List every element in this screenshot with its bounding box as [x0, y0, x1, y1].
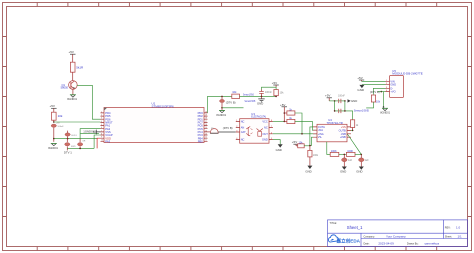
- U1 right pin stubs: [204, 113, 208, 141]
- U1 pin numbers: [101, 111, 207, 141]
- wire OUTA feedback down: [310, 127, 313, 145]
- svg-text:Sensor1/SN5: Sensor1/SN5: [354, 109, 370, 113]
- wire U1 PD3 up to sensor row: [208, 96, 232, 113]
- capacitor C? filter2: [359, 154, 370, 166]
- resistor R? pullup B: [284, 117, 295, 124]
- svg-text:PA3: PA3: [105, 139, 110, 143]
- wire +5V to U5 pin1: [362, 80, 386, 82]
- node key junction: [79, 148, 81, 150]
- svg-text:Your Company: Your Company: [386, 235, 406, 239]
- U5 pin stubs: [386, 81, 390, 91]
- capacitor C? decouple2: [339, 109, 341, 113]
- transistor Q1: [61, 81, 78, 90]
- wire opamp bottom to 100k1: [327, 142, 330, 155]
- ground flag GND opto: [276, 144, 283, 152]
- svg-text:+VO: +VO: [390, 90, 395, 94]
- svg-text:10k: 10k: [232, 90, 237, 94]
- svg-text:LED1: LED1: [71, 135, 77, 137]
- U4 left pin stubs: [313, 127, 317, 137]
- svg-text:14: 14: [205, 130, 207, 132]
- svg-text:1/1: 1/1: [458, 235, 463, 239]
- svg-text:100K: 100K: [347, 150, 353, 153]
- ground flag GND filter1: [340, 167, 347, 174]
- wire 100k1 to 100k2: [339, 153, 347, 155]
- svg-text:1uF: 1uF: [365, 159, 370, 162]
- wire Sensor2 row: [222, 107, 244, 109]
- U1 left pin names: [105, 111, 113, 143]
- node junction divider: [261, 96, 263, 98]
- svg-text:S8050: S8050: [61, 86, 69, 90]
- wire decouple bottom rail: [335, 101, 353, 120]
- node junction OUTB: [352, 130, 354, 132]
- svg-text:VS-: VS-: [318, 135, 322, 139]
- svg-text:Sheet_1: Sheet_1: [347, 225, 363, 230]
- connector U5 module: [390, 69, 424, 98]
- svg-text:5: 5: [101, 124, 102, 126]
- power flag +5V sensor: [272, 81, 279, 87]
- svg-text:GND: GND: [357, 88, 365, 92]
- wire sensor row right: [240, 95, 277, 97]
- ground ICND01 at U1 VSS: [83, 130, 100, 135]
- svg-text:100k: 100k: [313, 154, 319, 157]
- opamp U4 TP1572: [317, 118, 347, 142]
- diode LED DTV: [220, 96, 236, 107]
- node junction bias: [309, 145, 311, 147]
- svg-text:Company:: Company:: [364, 236, 376, 239]
- svg-text:GND: GND: [356, 170, 362, 174]
- svg-text:6: 6: [101, 127, 102, 129]
- svg-text:GND: GND: [257, 101, 263, 105]
- wire resistor to node: [53, 120, 55, 122]
- svg-text:+5V: +5V: [50, 104, 55, 108]
- capacitor C? +5V filter: [259, 90, 272, 97]
- svg-text:STM8S103F3P6: STM8S103F3P6: [152, 104, 175, 108]
- svg-text:NC: NC: [264, 126, 268, 130]
- svg-text:2023-04-09: 2023-04-09: [378, 241, 394, 245]
- node junction filter1: [344, 154, 346, 156]
- wire U5 pin4: [378, 91, 386, 93]
- wire VCAP branch: [94, 135, 100, 148]
- U3 left pin stubs: [236, 121, 240, 139]
- svg-text:0R: 0R: [83, 141, 86, 143]
- wire PA2 branch: [80, 129, 100, 139]
- node junctions decouple: [334, 100, 336, 102]
- node junction U5 pin4: [381, 91, 383, 93]
- svg-text:GND: GND: [351, 99, 357, 103]
- U3 internal LED: [246, 127, 252, 137]
- node junction DTV: [221, 107, 223, 109]
- wire decouple top rail: [329, 100, 345, 102]
- svg-text:18: 18: [205, 118, 207, 120]
- wire resistor to Q1: [72, 72, 74, 80]
- svg-text:17: 17: [205, 121, 207, 123]
- svg-text:+VS: +VS: [341, 125, 346, 129]
- ground flag GND bias: [305, 166, 312, 174]
- svg-text:CAT: CAT: [241, 130, 246, 134]
- svg-text:+INB: +INB: [340, 135, 346, 139]
- svg-text:VCC: VCC: [262, 119, 268, 123]
- svg-text:+5V: +5V: [56, 123, 60, 125]
- svg-text:100nF: 100nF: [57, 126, 64, 128]
- svg-text:VIN: VIN: [390, 79, 394, 83]
- svg-text:1GND01: 1GND01: [83, 130, 94, 134]
- ground flag GND U5: [357, 85, 365, 92]
- svg-text:5k1R: 5k1R: [76, 66, 84, 70]
- svg-text:+5V: +5V: [292, 140, 297, 144]
- resistor R? sensor line: [371, 95, 380, 104]
- U3 internal transistor: [257, 129, 263, 137]
- svg-text:Drawn By:: Drawn By:: [407, 242, 419, 245]
- title block frame: [328, 220, 468, 247]
- svg-text:Sensor2/SN5: Sensor2/SN5: [245, 99, 256, 103]
- wire Q1 base to U1 PD6: [77, 85, 100, 119]
- U1 right pin names: [198, 111, 204, 143]
- wire node to U1 NRST: [54, 121, 101, 123]
- capacitor C? decouple1: [338, 94, 345, 103]
- node junction filter2: [361, 154, 363, 156]
- node junction D1: [67, 138, 69, 140]
- svg-text:OUTB: OUTB: [339, 128, 346, 132]
- resistor R? key: [78, 139, 86, 149]
- svg-text:Sheet:: Sheet:: [445, 236, 453, 239]
- svg-text:OUT: OUT: [262, 132, 268, 136]
- wire diagonal OUTB to filter2: [347, 134, 361, 154]
- wire cap to gnd: [261, 96, 263, 99]
- wire U5 pin3 to resistor: [373, 88, 385, 94]
- svg-text:8GND01: 8GND01: [216, 114, 226, 117]
- svg-text:13: 13: [205, 133, 207, 135]
- svg-text:TP1572A-TR: TP1572A-TR: [327, 121, 343, 125]
- svg-text:1: 1: [101, 111, 102, 113]
- svg-text:+5V: +5V: [272, 81, 277, 85]
- U3 right pin stubs: [269, 121, 273, 139]
- ground GND bars: [257, 99, 265, 106]
- svg-text:-INB: -INB: [341, 132, 346, 136]
- svg-text:8GND01: 8GND01: [48, 147, 58, 150]
- wire pullupA to +INA node: [295, 113, 302, 134]
- svg-text:19: 19: [205, 115, 207, 117]
- svg-text:Sensor1/SN5: Sensor1/SN5: [243, 92, 254, 96]
- resistor R? 100k-1: [330, 150, 339, 157]
- svg-text:8: 8: [101, 133, 102, 135]
- svg-text:EL357N(C)(TA): EL357N(C)(TA): [251, 115, 266, 119]
- power flag +5V decouple: [325, 94, 332, 101]
- svg-text:11: 11: [205, 140, 207, 142]
- svg-text:NC: NC: [241, 138, 245, 142]
- svg-text:SW1: SW1: [71, 146, 77, 148]
- svg-text:9: 9: [101, 137, 102, 139]
- wire pullupB to -INA: [295, 121, 317, 130]
- resistor R? pullup A: [284, 109, 295, 116]
- wire key bottom row: [67, 147, 94, 149]
- node junction +INA: [301, 133, 303, 135]
- node junction left rail: [53, 138, 55, 140]
- U5 pin names: [390, 79, 396, 93]
- svg-text:10: 10: [101, 140, 103, 142]
- svg-text:REV:: REV:: [445, 227, 451, 230]
- wire opto OUT to +INA: [273, 133, 317, 135]
- svg-text:100nF: 100nF: [265, 91, 272, 94]
- diode D? key row: [65, 131, 77, 139]
- svg-text:(DTV B): (DTV B): [226, 100, 236, 104]
- wire bottom row: [54, 138, 97, 140]
- wire OUTB to node: [351, 129, 353, 131]
- resistor R? 100k to gnd: [308, 146, 319, 166]
- svg-text:GND: GND: [340, 170, 346, 174]
- wire pin4 down to ground: [383, 92, 385, 107]
- resistor R? horizontal sensor: [232, 90, 240, 98]
- power flag +5V (Q1 collector): [69, 50, 76, 62]
- power flag +5V (NRST pullup): [50, 104, 57, 112]
- capacitor C? (NRST): [51, 124, 64, 128]
- diode bell D? at U1 PC4: [208, 128, 219, 133]
- node NRST junction: [53, 121, 55, 123]
- svg-text:3: 3: [101, 118, 102, 120]
- svg-text:yanmeikua: yanmeikua: [425, 241, 440, 245]
- node rail junctions: [284, 112, 286, 114]
- svg-text:+5V: +5V: [325, 94, 330, 98]
- svg-text:嘉立创EDA: 嘉立创EDA: [336, 237, 361, 244]
- svg-text:8GND01: 8GND01: [380, 112, 390, 115]
- resistor R? 5k1 (base pullup): [70, 62, 84, 72]
- ground POW under DTV: [216, 108, 226, 117]
- svg-text:+5V: +5V: [357, 76, 362, 80]
- ground flag GND filter2: [356, 167, 364, 174]
- svg-text:GND: GND: [305, 170, 311, 174]
- node junction sensor: [221, 96, 223, 98]
- svg-text:TITLE:: TITLE:: [330, 222, 338, 225]
- wire VDD red: [97, 138, 100, 148]
- ground POW under Q1: [67, 95, 77, 101]
- svg-text:12: 12: [205, 137, 207, 139]
- power flag +5V U5: [357, 76, 364, 81]
- U5 pin numbers: [386, 80, 388, 92]
- wire capacitor down: [53, 128, 55, 139]
- wire bell to opto pin3: [218, 131, 236, 133]
- svg-text:GND: GND: [276, 148, 282, 152]
- IC U1 STM8S103F3P6: [104, 101, 204, 142]
- svg-text:10k: 10k: [58, 114, 63, 118]
- svg-text:2: 2: [101, 115, 102, 117]
- U3 pin numbers: [236, 120, 273, 140]
- svg-text:-INA: -INA: [318, 128, 323, 132]
- svg-text:Date:: Date:: [364, 242, 370, 245]
- ground flag GND decouple: [345, 99, 357, 103]
- wire opto VCC to +5V rail: [273, 120, 284, 122]
- wire VSS aux: [81, 132, 99, 134]
- svg-text:8GND01: 8GND01: [67, 98, 77, 101]
- power flag +5V rail: [280, 103, 287, 122]
- svg-text:20: 20: [205, 111, 207, 113]
- svg-text:16: 16: [205, 124, 207, 126]
- resistor R? opamp bias: [296, 141, 310, 147]
- U3 pin names: [241, 119, 269, 141]
- svg-text:MODULE-DB-2W07TE: MODULE-DB-2W07TE: [392, 72, 423, 76]
- svg-text:GND: GND: [390, 83, 396, 87]
- node junctions decouple2: [334, 110, 336, 112]
- resistor R? 10k (NRST): [52, 112, 63, 120]
- svg-text:15: 15: [205, 127, 207, 129]
- capacitor C? filter1: [342, 154, 353, 166]
- wire U5 pin2 to GND: [362, 84, 386, 86]
- wire opto GND down: [273, 140, 280, 145]
- resistor R? OUTB pull: [351, 120, 360, 131]
- U4 pin names: [318, 125, 346, 139]
- net label DTV 1: [64, 148, 72, 154]
- wire Q1 emitter to ground: [72, 89, 74, 94]
- svg-text:100K: 100K: [331, 150, 337, 153]
- wire 100k2 to out node: [355, 153, 361, 155]
- svg-text:+5V: +5V: [69, 50, 74, 54]
- svg-text:GND: GND: [262, 138, 268, 142]
- optocoupler U3 EL357N: [240, 112, 269, 143]
- resistor R? 100k-2: [346, 150, 355, 157]
- svg-text:PB5: PB5: [198, 139, 204, 143]
- ground POW left: [48, 139, 58, 150]
- switch DTV1 component: [65, 139, 77, 149]
- svg-text:+5V: +5V: [280, 103, 285, 107]
- svg-text:100nF: 100nF: [338, 94, 345, 97]
- power flag +5V opamp: [292, 140, 299, 146]
- svg-text:AN: AN: [241, 126, 245, 130]
- svg-text:1.0: 1.0: [456, 226, 461, 230]
- ground POW U5: [380, 106, 390, 114]
- resistor R? pullup sensor: [274, 90, 284, 96]
- svg-text:DTV 1: DTV 1: [64, 150, 72, 154]
- wire +5V to cap and resistor: [262, 87, 277, 89]
- svg-text:7: 7: [101, 130, 102, 132]
- svg-text:+INA: +INA: [318, 132, 324, 136]
- svg-text:NC: NC: [241, 119, 245, 123]
- logo JLC EDA: [328, 235, 360, 244]
- svg-text:1uF: 1uF: [348, 159, 353, 162]
- svg-text:4: 4: [101, 121, 102, 123]
- wire VS- down: [310, 137, 313, 145]
- U1 left pin stubs: [101, 113, 105, 141]
- wire resistor to Sensor1 label: [366, 102, 373, 108]
- U4 right pin stubs: [347, 127, 351, 137]
- svg-text:(DTV B): (DTV B): [223, 126, 233, 130]
